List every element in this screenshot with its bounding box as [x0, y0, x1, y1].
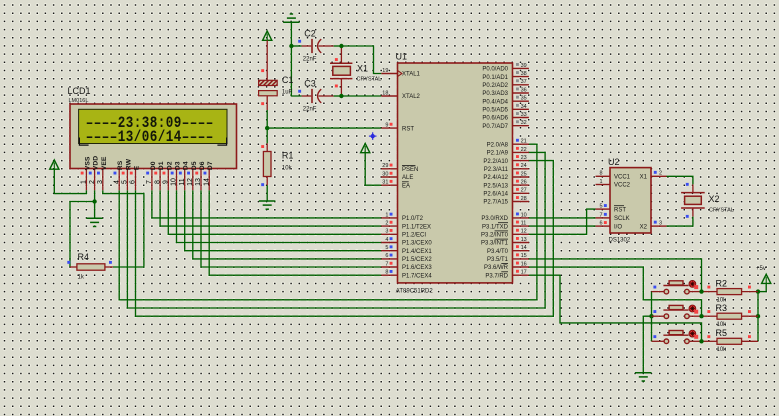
svg-text:C2: C2 — [304, 29, 316, 39]
svg-text:I/O: I/O — [614, 224, 622, 230]
svg-text:VEE: VEE — [101, 156, 108, 170]
svg-text:X2: X2 — [640, 224, 648, 230]
svg-text:R5: R5 — [716, 328, 728, 338]
svg-text:P1.0/T2: P1.0/T2 — [402, 216, 424, 222]
svg-text:P2.3/A11: P2.3/A11 — [484, 167, 509, 173]
svg-text:RS: RS — [117, 160, 124, 170]
svg-text:P1.1/T2EX: P1.1/T2EX — [402, 224, 431, 230]
svg-text:14: 14 — [203, 178, 210, 186]
svg-text:38: 38 — [521, 71, 527, 77]
svg-text:P0.4/AD4: P0.4/AD4 — [482, 99, 508, 105]
svg-text:33: 33 — [521, 112, 527, 118]
svg-text:5: 5 — [122, 180, 129, 184]
svg-text:D2: D2 — [166, 161, 173, 170]
svg-text:13: 13 — [195, 178, 202, 186]
svg-text:4: 4 — [385, 237, 388, 243]
svg-text:22: 22 — [521, 147, 527, 153]
svg-text:3: 3 — [659, 221, 662, 227]
svg-text:––––13/06/14––––: ––––13/06/14–––– — [86, 129, 214, 147]
svg-text:8: 8 — [600, 171, 603, 177]
svg-text:1: 1 — [385, 212, 388, 218]
svg-text:11: 11 — [179, 178, 186, 185]
svg-text:23: 23 — [521, 155, 527, 161]
svg-text:7: 7 — [600, 212, 603, 218]
svg-text:27: 27 — [521, 188, 527, 194]
svg-text:11: 11 — [521, 221, 527, 227]
svg-text:39: 39 — [521, 63, 527, 69]
svg-text:18: 18 — [382, 90, 388, 96]
svg-text:25: 25 — [521, 171, 527, 177]
svg-text:+5v: +5v — [756, 266, 766, 272]
svg-text:P1.4/CEX1: P1.4/CEX1 — [402, 249, 432, 255]
svg-text:DS1302: DS1302 — [609, 237, 631, 243]
svg-text:P3.4/T0: P3.4/T0 — [487, 249, 509, 255]
svg-text:10k: 10k — [282, 166, 293, 172]
svg-text:R4: R4 — [78, 252, 90, 262]
svg-text:10k: 10k — [717, 347, 728, 353]
svg-text:P2.2/A10: P2.2/A10 — [483, 159, 508, 165]
svg-text:14: 14 — [521, 245, 527, 251]
svg-text:R2: R2 — [716, 278, 728, 288]
svg-text:RST: RST — [614, 207, 626, 213]
svg-text:P2.6/A14: P2.6/A14 — [483, 192, 508, 198]
svg-text:X1: X1 — [640, 175, 648, 181]
svg-text:D7: D7 — [207, 161, 214, 170]
svg-text:P1.7/CEX4: P1.7/CEX4 — [402, 273, 432, 279]
svg-text:P0.5/AD5: P0.5/AD5 — [482, 108, 508, 114]
svg-text:26: 26 — [521, 180, 527, 186]
svg-text:P1.3/CEX0: P1.3/CEX0 — [402, 241, 432, 247]
svg-text:1: 1 — [81, 180, 88, 184]
svg-text:P0.2/AD2: P0.2/AD2 — [482, 83, 508, 89]
svg-text:2: 2 — [659, 171, 662, 177]
svg-text:RW: RW — [125, 158, 132, 170]
svg-text:P1.5/CEX2: P1.5/CEX2 — [402, 257, 432, 263]
svg-text:E: E — [134, 165, 141, 170]
svg-text:1k: 1k — [78, 275, 85, 281]
svg-text:9: 9 — [163, 180, 170, 184]
svg-text:P3.5/T1: P3.5/T1 — [487, 257, 509, 263]
svg-text:VCC1: VCC1 — [614, 175, 631, 181]
svg-text:6: 6 — [600, 221, 603, 227]
svg-text:P0.0/AD0: P0.0/AD0 — [482, 67, 508, 73]
svg-text:10: 10 — [521, 212, 527, 218]
svg-text:R1: R1 — [282, 151, 294, 161]
svg-text:9: 9 — [385, 123, 388, 129]
svg-text:X1: X1 — [357, 64, 368, 74]
svg-text:22nF: 22nF — [303, 57, 317, 63]
svg-text:X2: X2 — [709, 194, 720, 204]
svg-text:P2.4/A12: P2.4/A12 — [483, 175, 508, 181]
svg-text:5: 5 — [600, 204, 603, 210]
svg-text:16: 16 — [521, 261, 527, 267]
svg-text:PSEN: PSEN — [402, 167, 418, 173]
svg-text:32: 32 — [521, 120, 527, 126]
svg-text:VDD: VDD — [93, 156, 100, 170]
svg-text:P2.7/A15: P2.7/A15 — [483, 200, 508, 206]
svg-text:10k: 10k — [717, 322, 728, 328]
svg-text:CRYSTAL: CRYSTAL — [357, 76, 382, 82]
svg-text:2: 2 — [89, 180, 96, 184]
svg-text:12: 12 — [521, 229, 527, 235]
svg-text:D3: D3 — [175, 161, 182, 170]
svg-text:R3: R3 — [716, 303, 728, 313]
svg-text:D0: D0 — [150, 161, 157, 170]
svg-text:28: 28 — [521, 196, 527, 202]
svg-text:RST: RST — [402, 126, 414, 132]
svg-text:C3: C3 — [304, 79, 316, 89]
svg-text:XTAL2: XTAL2 — [402, 94, 421, 100]
svg-text:EA: EA — [402, 183, 410, 189]
svg-text:P3.1/TXD: P3.1/TXD — [482, 224, 509, 230]
svg-text:1uF: 1uF — [282, 90, 293, 96]
svg-text:21: 21 — [521, 139, 527, 145]
svg-text:P3.3/INT1: P3.3/INT1 — [481, 241, 509, 247]
svg-text:P3.7/RD: P3.7/RD — [485, 273, 508, 279]
svg-text:D4: D4 — [183, 161, 190, 170]
svg-text:P2.5/A13: P2.5/A13 — [483, 183, 508, 189]
svg-text:2: 2 — [385, 221, 388, 227]
svg-text:P0.6/AD6: P0.6/AD6 — [482, 116, 508, 122]
svg-text:17: 17 — [521, 270, 527, 276]
svg-text:6: 6 — [130, 180, 137, 184]
svg-text:P3.0/RXD: P3.0/RXD — [481, 216, 508, 222]
svg-text:5: 5 — [385, 245, 388, 251]
svg-text:P0.3/AD3: P0.3/AD3 — [482, 91, 508, 97]
svg-text:22nF: 22nF — [303, 107, 317, 113]
svg-text:D1: D1 — [158, 161, 165, 170]
svg-text:36: 36 — [521, 87, 527, 93]
svg-text:19: 19 — [382, 68, 388, 74]
svg-text:P3.2/INT0: P3.2/INT0 — [481, 233, 509, 239]
svg-text:24: 24 — [521, 163, 527, 169]
svg-text:7: 7 — [146, 180, 153, 184]
svg-text:34: 34 — [521, 104, 527, 110]
svg-text:P0.1/AD1: P0.1/AD1 — [482, 75, 508, 81]
svg-text:LCD1: LCD1 — [68, 86, 91, 96]
svg-text:15: 15 — [521, 253, 527, 259]
svg-text:U1: U1 — [396, 52, 408, 62]
svg-text:8: 8 — [154, 180, 161, 184]
svg-text:30: 30 — [382, 171, 388, 177]
svg-text:P2.0/A8: P2.0/A8 — [487, 142, 509, 148]
svg-text:7: 7 — [385, 261, 388, 267]
svg-text:XTAL1: XTAL1 — [402, 72, 421, 78]
svg-text:8: 8 — [385, 270, 388, 276]
svg-text:D6: D6 — [199, 161, 206, 170]
svg-text:SCLK: SCLK — [614, 216, 630, 222]
svg-text:P1.2/ECI: P1.2/ECI — [402, 233, 426, 239]
svg-text:P0.7/AD7: P0.7/AD7 — [482, 124, 508, 130]
svg-text:VCC2: VCC2 — [614, 183, 631, 189]
svg-text:3: 3 — [385, 229, 388, 235]
svg-text:LM016L: LM016L — [69, 98, 89, 104]
svg-text:12: 12 — [187, 178, 194, 186]
svg-text:29: 29 — [382, 163, 388, 169]
svg-text:D5: D5 — [191, 161, 198, 170]
svg-text:CRYSTAL: CRYSTAL — [709, 207, 734, 213]
svg-text:P1.6/CEX3: P1.6/CEX3 — [402, 265, 432, 271]
svg-text:P3.6/WR: P3.6/WR — [484, 265, 509, 271]
svg-text:37: 37 — [521, 79, 527, 85]
svg-text:VSS: VSS — [84, 156, 91, 170]
svg-text:6: 6 — [385, 253, 388, 259]
svg-text:35: 35 — [521, 96, 527, 102]
svg-text:ALE: ALE — [402, 175, 413, 181]
svg-text:P2.1/A9: P2.1/A9 — [487, 151, 509, 157]
svg-text:U2: U2 — [608, 157, 620, 167]
svg-text:10: 10 — [171, 178, 178, 186]
svg-text:13: 13 — [521, 237, 527, 243]
svg-text:AT89C51RD2: AT89C51RD2 — [396, 288, 434, 294]
svg-text:1: 1 — [600, 179, 603, 185]
svg-text:31: 31 — [382, 180, 388, 186]
svg-text:C1: C1 — [282, 75, 294, 85]
svg-text:3: 3 — [97, 180, 104, 184]
svg-text:4: 4 — [113, 180, 120, 184]
